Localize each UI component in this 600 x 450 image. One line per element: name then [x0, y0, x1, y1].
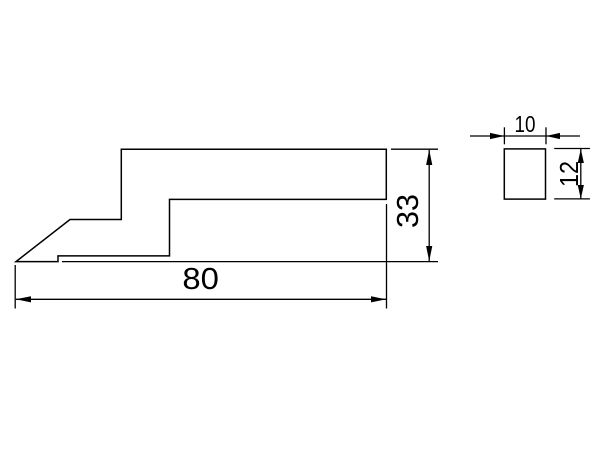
svg-text:80: 80	[182, 261, 219, 296]
dim 80 arrowhead right	[371, 296, 386, 302]
dim 80 extension line left	[14, 265, 16, 309]
dim 80 extension line right	[386, 204, 388, 309]
dim 33 extension line bottom	[62, 261, 438, 263]
svg-text:33: 33	[390, 194, 425, 228]
dim 33 arrowhead bottom	[426, 246, 432, 261]
end-view square	[504, 149, 545, 199]
dim 12 arrowhead top	[578, 149, 584, 163]
dim 10 dimension line	[470, 135, 580, 137]
svg-text:12: 12	[554, 161, 584, 187]
dim 12 extension line bottom	[554, 198, 590, 200]
dim 80 dimension line	[16, 298, 386, 300]
dim 33 dimension line	[428, 150, 430, 261]
dim 10 arrowhead left (outside, points right)	[490, 133, 504, 139]
dim 12 extension line top	[554, 148, 590, 150]
dim 33 arrowhead top	[426, 150, 432, 165]
dim 12 dimension line	[580, 149, 582, 199]
dim 10 extension line right	[545, 127, 547, 144]
dim 10 extension line left	[503, 127, 505, 144]
dim 80 arrowhead left	[16, 296, 31, 302]
profile outline	[16, 149, 386, 261]
dim 10 arrowhead right (outside, points left)	[546, 133, 560, 139]
dim 33 extension line top	[391, 148, 438, 150]
svg-text:10: 10	[515, 111, 536, 137]
dim 12 arrowhead bottom	[578, 185, 584, 199]
